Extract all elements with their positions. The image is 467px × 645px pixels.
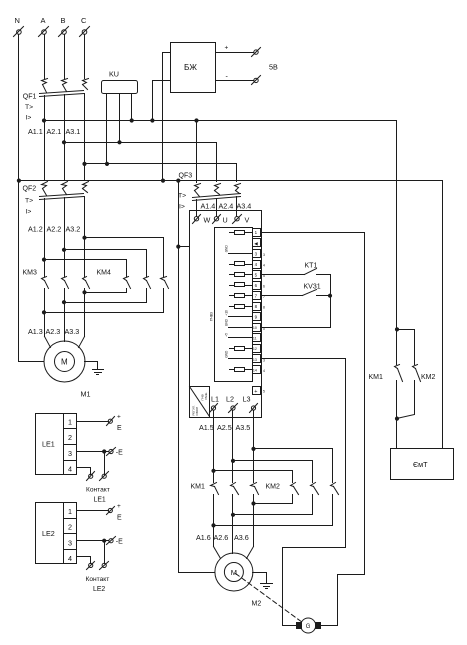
node bus2-B [62,141,65,144]
brake box EmT [391,449,454,480]
node bus4-M2 [177,179,180,182]
svg-text:LE2: LE2 [42,529,55,538]
wire phase A to KM3 [44,199,46,277]
node brake split top [395,328,398,331]
svg-text:10: 10 [253,326,257,330]
svg-text:A2.6: A2.6 [214,533,229,542]
node feed3 [83,236,86,239]
terminal LE1 -E [107,448,124,457]
wire M2 left (from neutral drop) [179,572,215,574]
bus wire 4 (neutral bus to BJ / M2 / brake) [19,180,443,182]
wire L3 down [253,411,255,483]
node LE2 -E [103,539,106,542]
wire KM2 feed 3 [254,449,333,483]
wire drive case stub [179,246,190,248]
node bus4-N [17,179,20,182]
strip row 10 [224,318,265,331]
strip row 7 [230,292,266,300]
node bus2-KU2 [118,141,121,144]
svg-text:+: + [117,414,121,421]
contact KM3 pole 1 [42,277,49,337]
svg-text:KV31: KV31 [304,284,321,291]
wire KM2 feed 1 [214,471,293,483]
terminal LE1 +E [107,414,123,433]
wire LE2 pin4 [77,557,91,564]
motor M2 [215,553,261,608]
svg-text:3: 3 [263,359,265,363]
svg-text:L3: L3 [243,395,251,404]
strip row 2 [253,239,261,247]
wire KM4 return 3 [45,312,164,314]
QF2 link bar [40,194,84,200]
drive inner terminal strip box [215,228,253,382]
svg-text:A1.5: A1.5 [199,423,214,432]
bus wire 3 (phase C tap to QF3) [85,164,237,182]
node return1 [83,291,86,294]
strip row 6 [230,282,266,290]
terminal L3 [243,395,258,413]
wire KM2 return 1 [254,503,293,505]
circuit breaker QF1 pole 1 [42,79,48,93]
svg-text:БЖ: БЖ [184,63,197,72]
wire phase B to KM3 [64,198,66,277]
svg-text:+10: +10 [224,310,228,316]
svg-text:T>: T> [25,198,33,205]
wire LE1 pin1 [77,421,109,423]
tacho generator G [297,618,321,633]
wire KM2 feed 2 [233,461,313,483]
wire row1 to tacho G right [261,233,365,626]
wire BJ output minus [216,80,254,82]
svg-text:4: 4 [68,554,72,563]
contact KM4 pole 3 [161,277,169,313]
bus wire 2 (phase B tap to QF3) [65,143,217,182]
wire KM4 feed 3 [85,238,164,277]
svg-text:-E: -E [116,450,123,457]
wire brake right feed from bus4 [442,181,444,449]
wire QF3 pole1 feed [196,121,198,183]
terminal C [80,16,90,37]
svg-text:Контакт: Контакт [86,487,110,494]
wire phase A mid [44,96,46,180]
svg-text:ОБОР.: ОБОР. [195,406,199,415]
node return3 [42,311,45,314]
circuit breaker QF3 pole 2 [215,184,221,195]
svg-text:11: 11 [253,337,257,341]
terminal LE1 contact b [100,472,109,481]
strip row 1 [230,229,261,237]
svg-text:N: N [15,16,20,25]
strip row 3 [224,245,265,258]
terminal L2 [226,395,238,413]
contact KM4 pole 1 [124,277,131,293]
svg-text:4: 4 [263,264,265,268]
wire phase B mid [64,95,66,180]
node bus1-QF3 [195,119,198,122]
terminal U [213,215,228,225]
strip row 5 [230,271,266,279]
terminal W [193,215,211,225]
terminal B [59,16,69,37]
block LE2 [36,503,77,564]
terminal V [233,215,250,225]
svg-text:3: 3 [68,449,72,458]
svg-text:KM4: KM4 [97,270,112,277]
svg-text:E: E [117,514,122,521]
wire KM2 return 3 [214,525,333,527]
node feedL2 [231,459,234,462]
svg-text:Контакт: Контакт [86,576,110,583]
wire KU pin1 [106,95,108,164]
bus wire 1 (phase A tap to KM brake branch) [45,120,397,122]
svg-text:T>: T> [178,193,186,200]
svg-text:M: M [231,568,237,577]
svg-text:13: 13 [253,358,257,362]
svg-text:5В: 5В [269,63,278,72]
QF1 link bar [40,91,84,97]
svg-text:+: + [254,389,257,395]
svg-text:M: M [61,358,68,367]
contact KM4 pole 2 [144,277,151,303]
node bus1-A [42,119,45,122]
node return2 [62,301,65,304]
node bus1-BJ [151,119,154,122]
svg-text:ЄмТ: ЄмТ [413,460,428,469]
svg-text:A1.4: A1.4 [201,202,216,211]
svg-text:KU: KU [109,70,119,79]
svg-text:G: G [306,624,311,630]
wire KM2 brake branch top [397,330,415,365]
contact KM1 pole 2 [231,483,239,554]
svg-text:A3.3: A3.3 [65,327,80,336]
svg-text:GND: GND [224,245,228,253]
wire N vertical [19,35,44,362]
ground M2 [253,573,273,589]
wire QF3 pole2 to U [216,199,218,217]
wire KU pin3 [131,95,133,121]
node returnL2 [231,513,234,516]
svg-text:5: 5 [263,390,265,394]
wire M1 lead 3 [79,337,85,348]
contact KM1 pole 1 [211,483,219,547]
wire neutral drop to M2 [178,181,180,573]
wire LE2 pin1 [77,510,109,512]
svg-text:LE1: LE1 [94,497,106,504]
node returnL1 [252,502,255,505]
node brake join bottom [395,417,398,420]
svg-text:A2.3: A2.3 [46,327,61,336]
terminal LE1 contact a [87,472,95,481]
svg-text:1: 1 [68,507,72,516]
svg-text:GND: GND [224,350,228,358]
svg-text:KM2: KM2 [421,374,436,381]
strip row 4 [230,261,266,269]
label Kontakt LE2 [86,576,110,593]
node feedL1 [212,469,215,472]
wire BJ output plus [216,52,254,54]
node bus1-KU3 [130,119,133,122]
wire phase C mid [84,94,86,180]
svg-text:A1.3: A1.3 [28,327,43,336]
svg-text:ПЧВ3: ПЧВ3 [210,312,214,321]
svg-text:KM3: KM3 [23,270,38,277]
ground M1 [85,362,104,375]
wire L2 down [232,411,234,483]
strip row 11 [224,333,260,342]
wire BJ upper input [163,53,171,181]
svg-text:A3.2: A3.2 [66,225,81,234]
svg-text:A1.2: A1.2 [28,225,43,234]
wire phase C to KM3 [84,197,86,277]
svg-text:GND: GND [224,318,228,326]
svg-text:-E: -E [116,539,123,546]
svg-text:A3.6: A3.6 [234,533,249,542]
wire M1 lead 1 [45,337,51,348]
svg-text:4: 4 [263,369,265,373]
terminal LE2 -E [107,537,124,546]
svg-text:A2.4: A2.4 [219,202,234,211]
regulator box REG [190,387,210,418]
strip row 9 [224,310,260,321]
wire KM4 return 2 [65,302,147,304]
strip row 12 [230,345,261,353]
mechanical link M2-G (dashed) [236,574,303,623]
contact KM2 brake [397,365,421,419]
svg-text:M1: M1 [81,390,91,399]
contact KM3 pole 2 [62,277,69,342]
svg-text:I>: I> [26,115,32,122]
svg-text:M2: M2 [252,601,262,608]
svg-text:W: W [204,216,211,225]
wire KM4 feed 2 [65,250,147,277]
wire LE1 -E down [104,452,106,475]
svg-text:3: 3 [68,539,72,548]
svg-text:A1.1: A1.1 [28,127,43,136]
wire KM4 return 1 [85,292,127,294]
block LE1 [36,414,77,475]
svg-text:I>: I> [26,209,32,216]
node bus4-BJ [161,179,164,182]
wire BJ lower input [153,81,171,121]
wire M2 lead 3 [247,547,254,559]
svg-text:1: 1 [68,418,72,427]
svg-text:A: A [41,16,46,25]
wire KU pin2 [119,95,121,143]
terminal plus 5V [225,45,261,57]
node feedL3 [252,447,255,450]
circuit breaker QF2 pole 1 [42,182,48,196]
wire QF3 pole3 to V [236,197,238,217]
svg-text:A2.1: A2.1 [47,127,62,136]
contact KM3 pole 3 [83,277,90,337]
wire phase B upper [64,35,66,79]
node LE1 -E [103,450,106,453]
svg-text:C: C [81,16,87,25]
terminal LE2 contact b [100,562,109,570]
wire phase C upper [84,35,86,79]
wire L1 down [213,411,215,483]
svg-text:V: V [245,216,250,225]
terminal LE2 +E [107,503,123,522]
svg-text:QF1: QF1 [23,94,37,101]
wire QF3 pole1 to W [196,200,198,217]
relay coil KU [102,70,138,94]
node KT1/KV31 [328,294,331,297]
node feed2 [62,248,65,251]
wire M2 lead 1 [214,547,221,559]
wire LE2 -E down [104,541,106,564]
svg-text:L1: L1 [211,395,219,404]
contact KM2 pole 3 [331,483,339,526]
svg-text:14: 14 [253,368,257,372]
drive box PCh [190,211,262,418]
contact KM1 pole 3 [251,483,259,547]
contact KM2 pole 1 [291,483,299,504]
svg-text:L2: L2 [226,395,234,404]
svg-text:I>: I> [179,204,185,211]
wire phase A upper [44,35,46,79]
wire LE1 pin4 [77,468,91,475]
svg-text:A1.6: A1.6 [196,533,211,542]
svg-text:◀: ◀ [254,241,258,246]
svg-text:2: 2 [68,433,72,442]
circuit breaker QF3 pole 3 [235,184,241,194]
terminal N [14,16,24,37]
svg-text:U: U [223,216,228,225]
motor M1 [44,341,91,399]
QF3 link bar [193,194,241,201]
strip row 13 [224,350,265,362]
svg-text:A3.4: A3.4 [237,202,252,211]
contact KM1 brake [395,365,403,449]
svg-text:QF3: QF3 [179,173,193,180]
svg-text:KM2: KM2 [266,484,281,491]
wire LE2 pin3 [77,540,109,542]
strip row 14 [230,366,266,374]
terminal minus 5V [226,74,261,85]
terminal LE2 contact a [87,562,95,570]
wire brake branch from bus1 [396,121,398,365]
contact KV31 [261,284,331,296]
terminal L1 [210,395,220,413]
svg-text:A2.5: A2.5 [217,423,232,432]
strip row 8 [230,303,266,311]
svg-text:LE2: LE2 [93,586,105,593]
wire KM2 return 2 [233,514,313,516]
wire KM4 feed 1 [45,260,127,277]
svg-text:A2.2: A2.2 [47,225,62,234]
node bus3-C [83,162,86,165]
strip plus square [253,387,266,395]
contact KM2 pole 2 [311,483,319,515]
svg-text:+5: +5 [224,333,228,337]
svg-text:РЕЖ.: РЕЖ. [204,392,208,400]
svg-text:4: 4 [68,465,72,474]
svg-text:E: E [117,425,122,432]
svg-text:12: 12 [253,347,257,351]
svg-text:+: + [117,503,121,510]
svg-text:LE1: LE1 [42,440,55,449]
wire KV31 return to row10 [261,296,331,328]
circuit breaker QF2 pole 2 [62,182,68,195]
power supply BJ [171,43,216,93]
svg-text:6: 6 [263,285,265,289]
circuit breaker QF3 pole 1 [195,184,201,197]
label Kontakt LE1 [86,487,110,504]
node returnL3 [212,524,215,527]
svg-text:3: 3 [263,253,265,257]
svg-text:ПЧВ: ПЧВ [200,394,204,400]
wire row13 to tacho G left [261,359,346,626]
svg-text:B: B [61,16,66,25]
svg-text:T>: T> [25,104,33,111]
svg-text:A3.5: A3.5 [236,423,251,432]
circuit breaker QF1 pole 3 [83,79,89,90]
circuit breaker QF2 pole 3 [83,182,89,193]
node drive case tap [177,245,180,248]
circuit breaker QF1 pole 2 [62,79,68,92]
terminal A [39,16,49,37]
node feed1 [42,258,45,261]
svg-text:QF2: QF2 [23,186,37,193]
svg-text:KM1: KM1 [369,374,384,381]
svg-text:2: 2 [68,523,72,532]
contact KT1 [261,263,331,296]
svg-text:8: 8 [263,306,265,310]
svg-text:KM1: KM1 [191,484,206,491]
wire LE1 pin3 [77,451,109,453]
svg-text:A3.1: A3.1 [66,127,81,136]
svg-text:+: + [225,45,229,52]
node bus3-KU1 [105,162,108,165]
